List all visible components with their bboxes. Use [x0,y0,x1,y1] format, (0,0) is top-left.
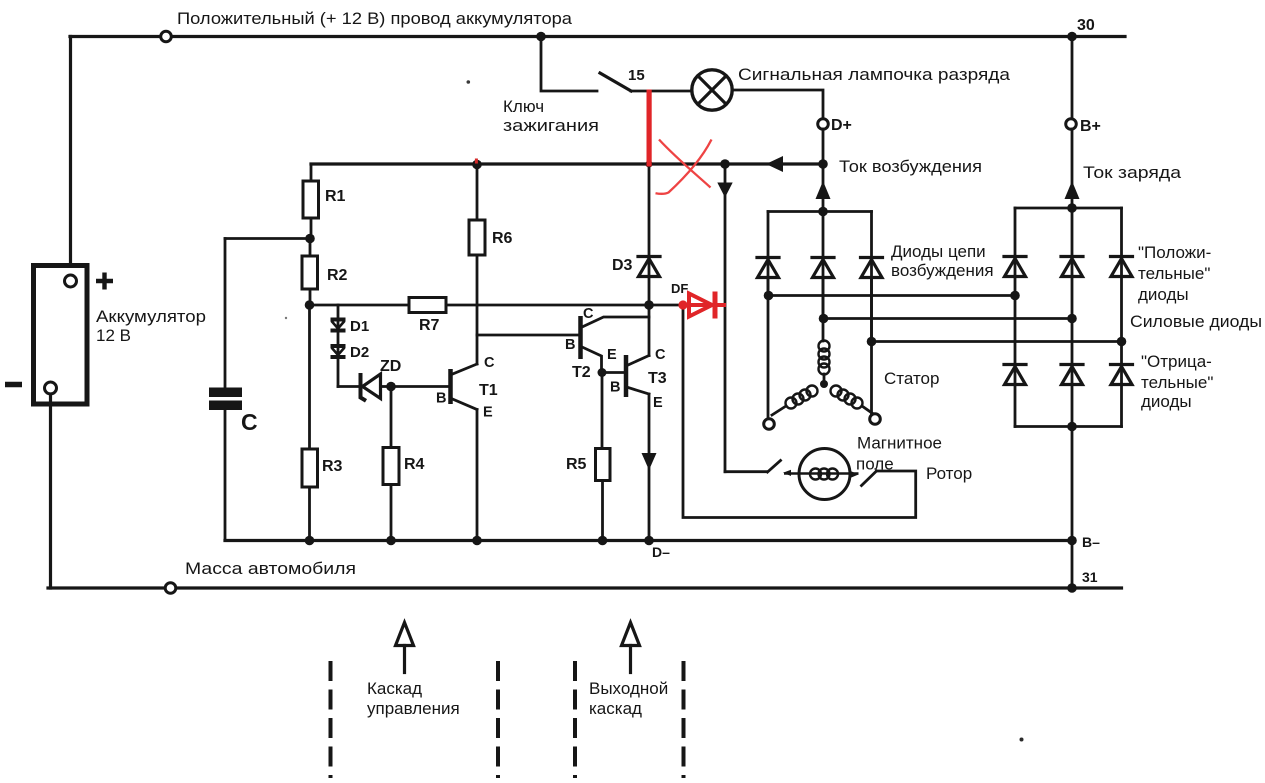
resistor R4 [383,448,399,541]
wire rectifier plus rail [1015,207,1122,210]
svg-text:B: B [436,391,446,407]
wire field diode column 1 [767,212,770,296]
svg-text:Ток возбуждения: Ток возбуждения [839,158,982,176]
svg-text:B+: B+ [1080,118,1101,135]
wire mid rail to R7 [310,304,410,307]
node junction phase3 column [1117,337,1127,347]
svg-text:30: 30 [1077,17,1095,34]
svg-text:Каскад: Каскад [367,679,422,698]
scan speck 1 [467,80,471,84]
arrow up excitation [816,181,831,199]
svg-text:D3: D3 [612,257,633,274]
stator winding middle coil [819,341,830,375]
wire battery negative lead [49,394,52,588]
node junction R1 R2 [305,234,315,244]
svg-text:Сигнальная лампочка разряда: Сигнальная лампочка разряда [738,65,1011,84]
svg-text:Выходной: Выходной [589,679,668,698]
wire phase1 to rectifier [769,294,1016,297]
svg-text:T1: T1 [479,382,498,399]
resistor R6 [469,164,485,255]
wire stator left phase end [772,406,786,415]
svg-text:Статор: Статор [884,369,939,388]
wire rotor branch vertical [724,164,727,472]
resistor R2 [302,239,318,306]
wire DF stub [649,304,683,307]
red overlay break line at 15 [647,90,652,167]
svg-text:каскад: каскад [589,699,642,718]
wire stator centre [823,374,826,384]
diode D3 [638,257,660,277]
transistor T1 [451,364,478,410]
arrow rotor left brush tip [783,470,791,476]
arrow down rotor branch [717,183,732,198]
node junction rectifier plus rail [1067,203,1077,213]
wire plus column 2 [1071,208,1074,319]
diode field 3 [861,258,883,278]
node junction divider [305,300,315,310]
wire mid column 2 [1071,319,1074,427]
svg-text:диоды: диоды [1138,285,1189,304]
svg-text:Аккумулятор: Аккумулятор [96,307,206,326]
svg-text:B–: B– [1082,534,1100,550]
wire regulator bottom rail D- [225,539,1072,542]
node open terminal on ground rail [165,583,176,594]
rotor axis line [784,472,859,474]
svg-text:возбуждения: возбуждения [891,261,994,280]
svg-text:диоды: диоды [1141,392,1192,411]
svg-text:поле: поле [856,455,894,474]
wire T1 emitter down [476,410,479,541]
svg-text:D2: D2 [350,344,369,361]
svg-text:B: B [565,337,575,353]
battery B1 [34,266,88,405]
dashed boundary line 4 [682,661,686,778]
svg-text:R2: R2 [327,267,348,284]
svg-text:C: C [655,347,666,363]
node junction rail D+ branch [818,159,828,169]
wire plus column 3 [1120,208,1123,342]
diode negative 2 [1061,365,1083,385]
svg-text:R4: R4 [404,456,425,473]
node stator left terminal [764,419,775,430]
scan speck 2 [1020,738,1024,742]
dashed boundary line 2 [496,661,500,778]
node junction R3 ground [305,536,315,546]
wire ground rail 31 [48,586,1122,589]
node junction T1 emitter ground [472,536,482,546]
svg-text:тельные": тельные" [1141,373,1213,392]
wire field diode feed [822,164,825,212]
svg-text:Ключ: Ключ [503,97,544,116]
arrow down T3 emitter [642,453,657,470]
resistor R3 [302,305,318,541]
wire junction to cap branch [225,237,310,240]
svg-text:Положительный (+ 12 В) провод: Положительный (+ 12 В) провод аккумулято… [177,9,573,28]
node junction 31 [1067,583,1077,593]
node junction phase3 [867,337,877,347]
red overlay X mark [656,140,712,194]
resistor R1 [303,164,319,239]
red diode DF [678,292,726,319]
wire B- column [1071,427,1074,589]
transistor T2 [581,316,650,373]
node junction DF [644,300,654,310]
svg-text:тельные": тельные" [1138,264,1210,283]
zener ZD [361,373,392,401]
svg-text:R5: R5 [566,456,587,473]
svg-text:31: 31 [1082,569,1098,585]
node junction phase1 [764,291,774,301]
label battery plus [96,273,113,290]
svg-text:R1: R1 [325,188,346,205]
node junction field rail [818,207,828,217]
node junction phase2 [819,314,829,324]
rotor slip ring circle [799,449,850,500]
diode positive 1 [1004,257,1026,277]
node battery plus terminal [65,275,77,287]
stator winding right coil [831,386,863,409]
wire B+ column [1071,37,1074,120]
svg-text:Магнитное: Магнитное [857,434,942,453]
arrow up charge current [1065,181,1080,199]
wire stator right phase end [862,406,872,413]
wire T3 base link [602,371,626,374]
node open terminal on top rail [161,31,172,42]
svg-text:B: B [610,380,620,396]
svg-text:зажигания: зажигания [503,116,599,135]
svg-text:Силовые диоды: Силовые диоды [1130,312,1262,331]
node junction rail R6 [472,160,482,170]
diode field 2 [812,258,834,278]
node D+ terminal [818,119,829,130]
svg-text:"Отрица-: "Отрица- [1141,352,1212,371]
svg-text:Ротор: Ротор [926,464,972,483]
wire phase2 down [822,278,825,342]
node junction T3 emitter ground [644,536,654,546]
wire field diode column 2 [822,212,825,319]
diode negative 1 [1004,365,1026,385]
node junction ignition branch [536,32,546,42]
arrow stage pointer control [396,623,414,673]
switch left brush [768,461,781,473]
node junction R5 ground [598,536,608,546]
diode positive 3 [1111,257,1133,277]
wire rotor return path [683,309,916,518]
diode D2 [331,346,346,357]
wire battery positive lead [69,37,72,276]
wire regulator top rail [311,162,823,165]
svg-text:R7: R7 [419,317,440,334]
dashed boundary line 3 [573,661,577,778]
svg-text:T3: T3 [648,370,667,387]
node junction 30 [1067,32,1077,42]
node junction T2 emitter T3 base [598,368,607,377]
arrow excitation current left [766,156,783,172]
node junction minus rail [1067,422,1077,432]
svg-text:D–: D– [652,544,670,560]
wire top positive rail [70,35,1125,38]
switch right brush [862,471,877,486]
svg-text:R3: R3 [322,458,343,475]
svg-text:C: C [583,306,594,322]
svg-text:12 В: 12 В [96,326,131,345]
red tick at R6 junction [475,159,478,164]
svg-text:D+: D+ [831,117,852,134]
wire field diode top rail [768,210,872,213]
wire plus column 1 [1014,208,1017,296]
node stator star point [820,380,828,388]
wire field diode column 3 [870,212,873,342]
resistor R7 [409,298,446,313]
svg-text:Ток заряда: Ток заряда [1083,163,1182,182]
lamp charge indicator [692,70,732,110]
wire phase1 down to stator [767,278,770,420]
wire D2 to zener [338,385,360,388]
wire B+ to rectifier [1071,129,1074,208]
switch ignition key lever [600,73,631,91]
wire T3 emitter down [648,394,651,541]
wire D3 branch top [648,164,651,305]
svg-text:T2: T2 [572,364,591,381]
wire D+ down [822,129,825,164]
wire R7 to DF [446,304,649,307]
wire mid column 1 [1014,296,1017,427]
arrow stage pointer output [622,623,640,673]
node junction R4 ground [386,536,396,546]
diode positive 2 [1061,257,1083,277]
stator winding left coil [786,386,818,409]
svg-text:C: C [241,409,258,435]
svg-text:управления: управления [367,699,460,718]
svg-text:Диоды цепи: Диоды цепи [891,242,986,261]
svg-text:E: E [607,347,617,363]
arrow rotor right brush tip [851,471,859,477]
label battery minus [5,382,22,388]
wire mid column 3 [1120,342,1123,427]
wire T1 collector to R6 [476,255,479,364]
wire zener to T1 base [391,385,451,388]
wire phase3 down [870,278,873,415]
node junction B- [1067,536,1077,546]
svg-text:D1: D1 [350,318,369,335]
node battery minus terminal [45,382,57,394]
node junction phase2 column [1067,314,1077,324]
wire T3 collector to DF node [648,305,651,356]
diode field 1 [757,258,779,278]
scan speck 3 [285,317,287,319]
svg-text:DF: DF [671,281,688,296]
wire R5 top [601,373,604,449]
svg-text:Масса автомобиля: Масса автомобиля [185,559,356,578]
wire T1 collector node to T2 base [477,334,581,337]
svg-text:C: C [484,355,495,371]
svg-text:R6: R6 [492,230,513,247]
svg-text:ZD: ZD [380,358,401,375]
node B+ terminal [1066,119,1077,130]
svg-text:E: E [483,405,493,421]
svg-text:E: E [653,395,663,411]
wire ignition switch feed [541,37,597,92]
diode D1 [331,320,346,331]
dashed boundary line 1 [329,661,333,778]
svg-text:15: 15 [628,67,645,84]
wire left brush lead [725,470,767,473]
capacitor C [209,239,242,541]
transistor T3 [626,355,649,397]
svg-text:"Положи-: "Положи- [1138,243,1211,262]
wire rectifier minus rail [1015,425,1122,428]
wire lamp to D+ [733,90,823,119]
node junction zener base R4 [386,382,396,392]
node junction phase1 column [1010,291,1020,301]
wire switch to lamp [631,90,692,93]
node junction rail rotor branch [720,159,730,169]
wire phase2 to rectifier [824,317,1073,320]
wire junction to R4 [390,387,393,448]
wire phase3 to rectifier [872,340,1122,343]
diode negative 3 [1111,365,1133,385]
resistor R5 [596,449,611,541]
rotor field coil [810,469,838,480]
node junction rail D3 [645,160,652,167]
wire D1 tap [337,305,340,387]
node stator right terminal [870,414,881,425]
